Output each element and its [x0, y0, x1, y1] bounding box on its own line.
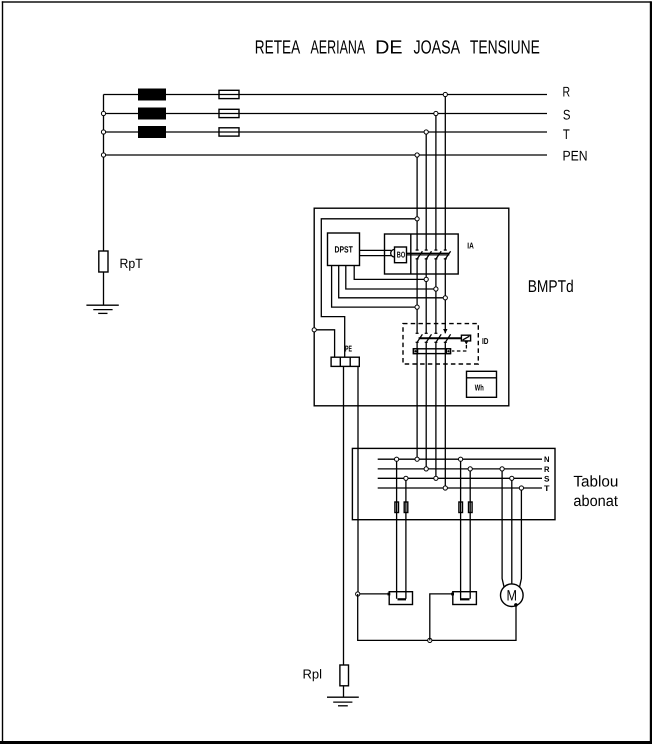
wire S line: [104, 113, 548, 115]
breaker IA divider: [410, 234, 412, 274]
node socket2 N: [459, 457, 463, 461]
ID trip bar: [419, 337, 462, 339]
wire motor R feed: [502, 469, 504, 587]
node PEN drop: [415, 153, 419, 157]
fuse socket1 S: [404, 502, 408, 513]
wire socket2 N feed: [460, 459, 462, 599]
svg-text:T: T: [544, 484, 550, 493]
svg-text:S: S: [563, 107, 571, 123]
svg-text:abonat: abonat: [573, 493, 618, 510]
wire enclosure earth tap: [314, 330, 334, 357]
fuse F3 on T line: [219, 128, 239, 136]
tick socket1 PE: [388, 593, 391, 596]
wire motor S feed: [511, 478, 513, 584]
toroid left cap: [413, 349, 417, 354]
ID pole 4 contact with arrow: [443, 329, 451, 343]
svg-text:Rpl: Rpl: [303, 666, 323, 681]
resistor RpT: [99, 251, 108, 272]
meter Wh box: [467, 371, 497, 397]
wire PE block down right: [357, 366, 359, 594]
node motor R: [500, 467, 504, 471]
wire PE to socket1: [358, 593, 390, 595]
toroid right cap: [446, 349, 450, 354]
wire socket1 S feed: [405, 478, 407, 599]
IA pole 4 contact: [444, 249, 451, 259]
node socket1 N: [395, 457, 399, 461]
socket 1 contact bar: [398, 598, 407, 600]
wire PE bottom run: [358, 594, 516, 640]
coil BO box: [395, 247, 407, 263]
node PEN sense: [415, 305, 419, 309]
wire S drop: [435, 114, 437, 251]
svg-text:DE: DE: [375, 37, 402, 58]
bus T: [378, 487, 542, 489]
terminal block PE: [331, 357, 359, 366]
title RETEA AERIANA DE JOASA TENSIUNE: [255, 37, 540, 58]
node T sense: [424, 277, 428, 281]
wire R drop: [444, 95, 446, 251]
fuse F2 on S line: [219, 109, 239, 117]
IA pole 2 contact: [425, 249, 432, 259]
svg-text:TENSIUNE: TENSIUNE: [470, 37, 540, 58]
panel Tablou abonat box: [352, 448, 555, 519]
IA pole 3 contact: [434, 249, 441, 259]
node on enclosure edge: [312, 328, 316, 332]
svg-text:RETEA: RETEA: [255, 37, 301, 58]
node T to bus R: [424, 467, 428, 471]
wire pole3 below ID: [435, 342, 437, 478]
svg-text:M: M: [507, 588, 518, 605]
wire motor T feed: [520, 488, 522, 587]
wire DPST pin2 to R phase: [339, 266, 446, 298]
svg-text:PEN: PEN: [563, 148, 588, 164]
node T drop: [424, 130, 428, 134]
svg-text:R: R: [563, 83, 571, 99]
wire DPST pin1 to PEN: [332, 266, 418, 308]
wire pole4 below ID: [444, 342, 446, 488]
ground for Rpl: [327, 697, 359, 706]
wire left vertical to RpT: [103, 95, 105, 252]
node R drop: [443, 92, 447, 96]
BMPTd enclosure box: [314, 208, 509, 406]
svg-text:IA: IA: [467, 240, 474, 250]
wire DPST pin3 to S phase: [346, 266, 436, 290]
dot motor earth: [514, 603, 518, 607]
wire RpT to ground: [103, 272, 105, 305]
wire pole2 below IA: [425, 259, 427, 333]
breaker IA box: [385, 234, 459, 274]
fuse F1 on R line: [219, 90, 239, 98]
socket 2 box: [453, 592, 477, 605]
node socket2 R: [468, 467, 472, 471]
node S to bus S: [434, 476, 438, 480]
ID test dashed link: [452, 345, 466, 351]
wire PEN line: [104, 154, 548, 156]
coil BO arc: [391, 249, 395, 257]
node PEN to bus N: [415, 457, 419, 461]
clamp on T line: [138, 126, 166, 138]
svg-text:RpT: RpT: [120, 256, 143, 271]
bus N: [378, 458, 542, 460]
wire pole1 below IA: [416, 259, 418, 333]
fuse socket1 N: [395, 502, 399, 513]
svg-text:N: N: [544, 455, 550, 464]
meter Wh register line: [467, 377, 497, 379]
IA pole 1 contact: [416, 249, 423, 259]
ID pole 2 contact: [425, 333, 432, 343]
svg-text:S: S: [544, 474, 550, 483]
wire pole2 below ID: [425, 342, 427, 469]
motor M circle: [501, 584, 524, 607]
toroid CT body: [413, 349, 450, 354]
wire DPST to BO upper: [360, 249, 392, 251]
wire DPST to BO lower: [360, 255, 392, 257]
wire PE block to Rpl: [343, 366, 345, 665]
fuse socket2 R: [469, 502, 473, 513]
wire socket2 R feed: [469, 469, 471, 599]
ID pole 1 contact: [416, 333, 423, 343]
bus R: [378, 468, 542, 470]
ground for RpT: [86, 305, 118, 313]
clamp on S line: [138, 108, 166, 120]
svg-text:AERIANA: AERIANA: [311, 37, 366, 58]
wire T line: [104, 131, 548, 133]
wire pole4 below IA: [444, 259, 446, 333]
wire socket1 N feed: [396, 459, 398, 599]
tick socket2 PE: [451, 593, 454, 596]
svg-text:JOASA: JOASA: [414, 37, 461, 58]
wire PE to socket2: [430, 594, 453, 641]
node socket1 S: [404, 476, 408, 480]
wire PEN tap to left: [321, 219, 417, 357]
svg-text:BO: BO: [397, 250, 406, 260]
svg-text:R: R: [544, 465, 550, 474]
clamp on R line: [138, 89, 166, 101]
ID trip mechanism lever: [463, 336, 470, 340]
IA linkage bar: [407, 253, 450, 255]
node T tap: [101, 130, 105, 134]
wire PEN drop: [416, 155, 418, 250]
svg-text:DPST: DPST: [335, 244, 354, 254]
bus S: [378, 477, 542, 479]
socket 2 contact bar: [460, 598, 470, 600]
svg-text:T: T: [563, 126, 570, 142]
ID trip arrow: [465, 342, 468, 345]
node S sense: [434, 287, 438, 291]
node S drop: [434, 111, 438, 115]
node S tap: [101, 111, 105, 115]
node R sense: [443, 296, 447, 300]
resistor Rpl: [340, 665, 349, 686]
wire pole1 below ID: [416, 342, 418, 459]
svg-text:Wh: Wh: [475, 382, 484, 392]
wire T drop: [425, 132, 427, 250]
node motor S: [510, 476, 514, 480]
relay DPST box: [328, 233, 360, 266]
node motor T: [519, 486, 523, 490]
breaker ID dashed box: [403, 324, 478, 364]
node PEN-PE tap: [415, 217, 419, 221]
ID trip mechanism box: [461, 335, 470, 341]
wire pole3 below IA: [435, 259, 437, 333]
wire DPST pin4 to T phase: [354, 266, 426, 280]
node PE split: [356, 592, 360, 596]
node bottom run: [428, 638, 432, 642]
ID pole 3 contact: [434, 333, 441, 343]
svg-text:ID: ID: [482, 336, 489, 346]
node R to bus T: [443, 486, 447, 490]
node PEN tap: [101, 153, 105, 157]
wire Rpl to ground: [343, 686, 345, 697]
wire R line: [104, 94, 548, 96]
fuse socket2 N: [459, 502, 463, 513]
socket 1 box: [389, 592, 412, 605]
svg-text:BMPTd: BMPTd: [528, 277, 574, 296]
svg-text:Tablou: Tablou: [573, 474, 618, 491]
svg-text:PE: PE: [345, 344, 352, 354]
